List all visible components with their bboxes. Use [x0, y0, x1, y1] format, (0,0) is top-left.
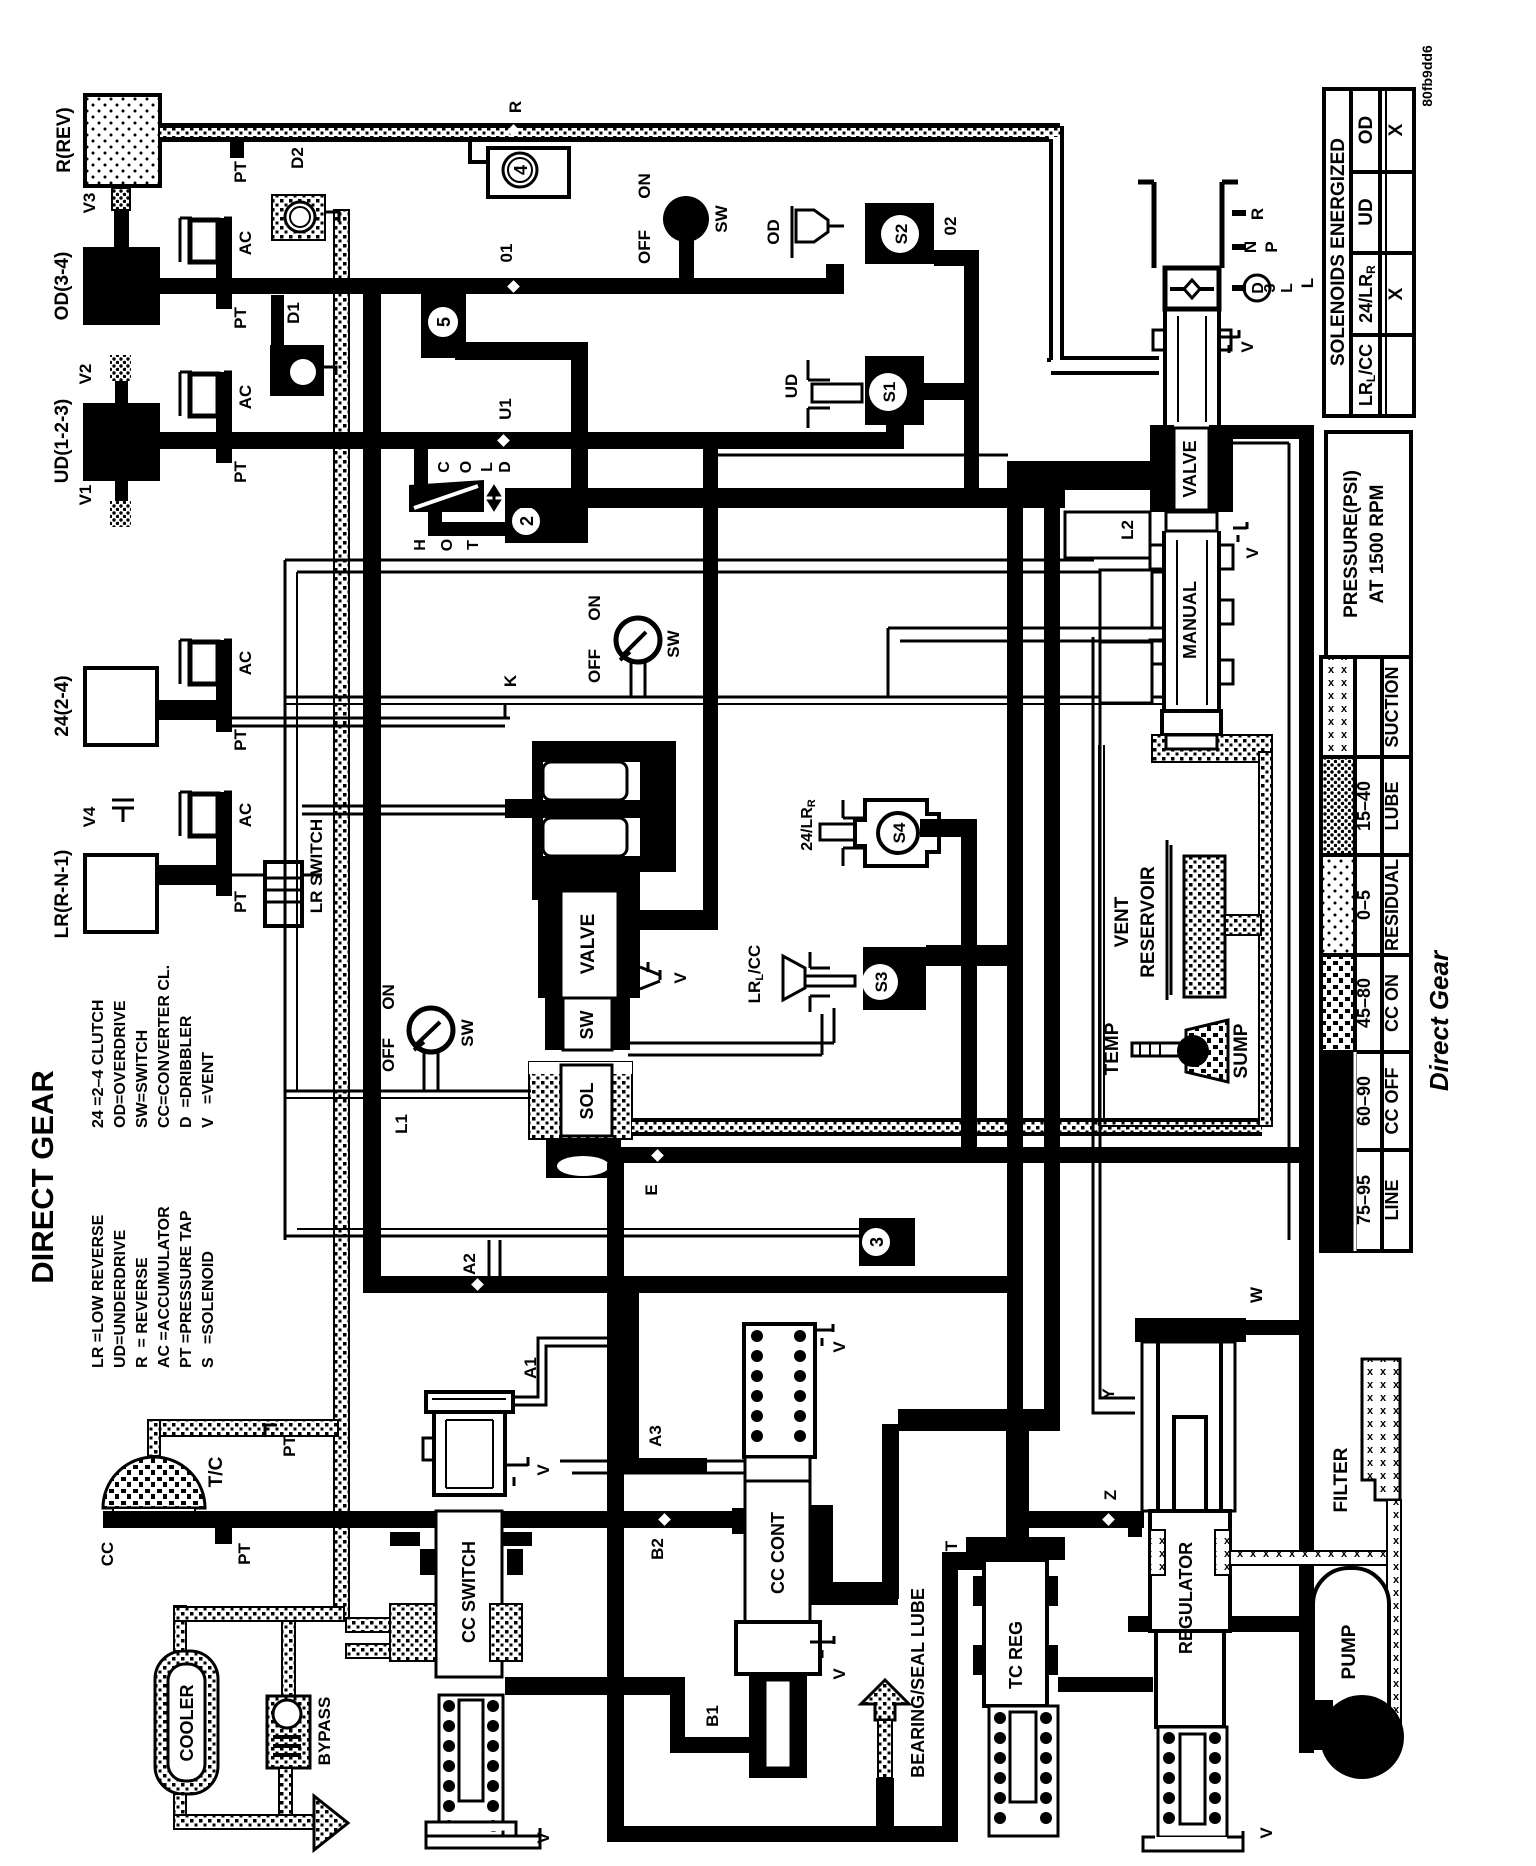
- svg-text:VENT: VENT: [1112, 896, 1133, 947]
- wire K line: [285, 696, 1164, 699]
- accumulator AC on OD line: [180, 218, 255, 309]
- svg-text:OD: OD: [764, 219, 783, 245]
- wire OD drop to S2 plunger: [826, 264, 844, 278]
- svg-text:V: V: [534, 1464, 553, 1476]
- gear position ticks: [1232, 213, 1246, 288]
- svg-text:UD: UD: [1356, 198, 1377, 225]
- svg-text:LINE: LINE: [1382, 1179, 1402, 1220]
- wire TC REG top connector: [898, 1409, 1060, 1431]
- wire UD line: [160, 432, 904, 449]
- wire E line: [621, 1147, 1307, 1163]
- table SOLENOIDS ENERGIZED: [1324, 89, 1414, 416]
- pressure tap PT on R line: [230, 142, 244, 158]
- swatch line: [1321, 1152, 1355, 1249]
- pressure tap PT on 24 line: [216, 716, 232, 732]
- svg-text:PT: PT: [231, 461, 250, 483]
- svg-text:TEMP: TEMP: [1102, 1022, 1123, 1075]
- reservoir enclosure: [1099, 745, 1265, 1126]
- svg-text:PRESSURE(PSI): PRESSURE(PSI): [1341, 470, 1362, 618]
- accumulator AC on 24 line: [180, 640, 255, 716]
- clutch UD(1-2-3) box: [83, 403, 160, 481]
- LR switch symbol: [265, 862, 302, 926]
- svg-text:OFF: OFF: [585, 649, 604, 683]
- svg-text:AC: AC: [236, 651, 255, 676]
- accumulator AC on UD line: [180, 372, 255, 463]
- valve CC SWITCH spring: [439, 1695, 503, 1836]
- svg-text:LRL/CC: LRL/CC: [1356, 344, 1378, 406]
- valve SOL section with solenoid shell: [529, 1062, 632, 1139]
- valve bottom cap: [546, 1139, 621, 1178]
- svg-text:OD: OD: [1356, 116, 1377, 145]
- svg-text:OFF: OFF: [635, 230, 654, 264]
- svg-text:3: 3: [867, 1237, 887, 1247]
- svg-text:02: 02: [941, 217, 960, 236]
- svg-text:K: K: [501, 674, 520, 687]
- wire L1 line: [285, 1090, 531, 1093]
- svg-text:PT: PT: [231, 307, 250, 329]
- svg-text:U1: U1: [496, 398, 515, 420]
- svg-text:SOL: SOL: [577, 1082, 597, 1119]
- svg-text:Z: Z: [1101, 1490, 1120, 1500]
- svg-text:AT 1500 RPM: AT 1500 RPM: [1367, 485, 1388, 604]
- svg-text:CC=CONVERTER CL.: CC=CONVERTER CL.: [156, 965, 173, 1128]
- wire regulator right stub: [1230, 1616, 1300, 1632]
- svg-text:X: X: [1386, 123, 1407, 136]
- svg-text:PT: PT: [235, 1543, 254, 1565]
- wire C turn to CC CONT vertical: [898, 1409, 1060, 1426]
- svg-text:S3: S3: [872, 972, 891, 993]
- wire B1 line: [505, 1677, 685, 1695]
- wire S2 to vertical: [934, 250, 979, 266]
- shifter gate rails: [1138, 182, 1238, 268]
- svg-text:V: V: [1257, 1827, 1276, 1839]
- svg-text:REGULATOR: REGULATOR: [1176, 1542, 1196, 1654]
- vent V3: [112, 188, 130, 210]
- valve VALVE black housing: [1150, 425, 1174, 512]
- svg-text:Y: Y: [1099, 1388, 1118, 1400]
- valve CC SWITCH stipple chamber: [390, 1604, 436, 1661]
- table PRESSURE(PSI) AT 1500 RPM: [1326, 432, 1411, 657]
- svg-text:S1: S1: [880, 382, 899, 403]
- svg-text:BYPASS: BYPASS: [315, 1697, 334, 1766]
- solenoid S3: [863, 947, 926, 1010]
- accumulator AC on LR line: [180, 792, 255, 880]
- svg-text:V4: V4: [80, 806, 99, 827]
- svg-text:MANUAL: MANUAL: [1180, 581, 1200, 659]
- wire 24 thin line: [232, 704, 510, 726]
- svg-text:W: W: [1247, 1286, 1266, 1303]
- svg-text:LR SWITCH: LR SWITCH: [307, 819, 326, 913]
- svg-text:X: X: [1386, 287, 1407, 300]
- svg-text:D: D: [497, 461, 514, 473]
- svg-text:O: O: [439, 539, 456, 551]
- wire left box verticals: [284, 560, 287, 1240]
- svg-text:O: O: [458, 461, 475, 473]
- wire stipple cooler loop: [174, 1606, 186, 1651]
- node A2: [471, 1278, 484, 1291]
- clutch OD(3-4) box: [83, 247, 160, 325]
- svg-text:VALVE: VALVE: [1180, 440, 1200, 497]
- svg-text:LUBE: LUBE: [1382, 782, 1402, 831]
- svg-text:V =VENT: V =VENT: [200, 1052, 217, 1128]
- wire E return vertical: [607, 1163, 624, 1842]
- node B2: [658, 1513, 671, 1526]
- svg-text:RESIDUAL: RESIDUAL: [1382, 859, 1402, 951]
- svg-text:Direct Gear: Direct Gear: [1424, 949, 1454, 1091]
- sump SUMP: [1186, 1020, 1228, 1082]
- clutch 24(2-4) box: [85, 668, 157, 745]
- wire A3 line: [560, 1461, 744, 1473]
- wire CC CONT long vertical: [882, 1424, 899, 1599]
- filter FILTER: [1362, 1359, 1400, 1500]
- svg-text:5: 5: [434, 317, 454, 327]
- svg-text:UD(1-2-3): UD(1-2-3): [52, 399, 73, 483]
- SEC:TABLES: [52, 95, 543, 1621]
- switch SW on L1: [409, 1008, 453, 1052]
- swatch cc off: [1321, 1054, 1355, 1148]
- svg-text:RESERVOIR: RESERVOIR: [1138, 866, 1159, 978]
- switch SW on K line: [616, 618, 660, 662]
- svg-text:SUMP: SUMP: [1231, 1023, 1252, 1078]
- wire vertical A to E line: [961, 966, 977, 1156]
- swatch residual: [1323, 857, 1353, 953]
- legend table pressures: [1321, 657, 1411, 1251]
- solenoid S4: [855, 800, 939, 866]
- vent V1: [115, 481, 128, 501]
- svg-text:LRL/CC: LRL/CC: [745, 945, 766, 1004]
- reservoir top stipple: [1152, 735, 1272, 762]
- svg-text:D2: D2: [288, 147, 307, 169]
- svg-text:L2: L2: [1118, 520, 1137, 540]
- svg-text:75–95: 75–95: [1354, 1175, 1374, 1225]
- svg-text:AC: AC: [236, 803, 255, 828]
- svg-text:PUMP: PUMP: [1339, 1624, 1360, 1679]
- node B1: [706, 1680, 719, 1693]
- svg-text:L: L: [1298, 278, 1317, 288]
- svg-text:ON: ON: [585, 595, 604, 621]
- wire S4 to vertical A: [920, 819, 977, 837]
- suction line to regulator: [1230, 1551, 1390, 1565]
- node E: [651, 1149, 664, 1162]
- cooler COOLER: [155, 1651, 218, 1794]
- svg-text:V: V: [830, 1668, 849, 1680]
- svg-text:S2: S2: [892, 224, 911, 245]
- dribbler D2: [272, 195, 325, 240]
- manual valve body: [1164, 531, 1219, 711]
- dribbler D1: [271, 295, 284, 345]
- reservoir tank: [1167, 840, 1171, 1000]
- svg-text:24(2-4): 24(2-4): [52, 675, 73, 736]
- svg-text:VALVE: VALVE: [578, 914, 599, 975]
- valve REGULATOR mid: [1128, 1511, 1142, 1537]
- svg-text:T: T: [465, 540, 482, 550]
- wire R line (stippled residual): [160, 123, 1060, 128]
- svg-text:2: 2: [517, 516, 537, 526]
- wire OD line: [160, 278, 844, 294]
- wire 24 line stub: [157, 700, 232, 720]
- svg-text:N: N: [1241, 241, 1260, 253]
- wire CC CONT branch right: [817, 1582, 898, 1605]
- wire Z line: [1023, 1511, 1144, 1528]
- switch SW on OD line: [663, 196, 709, 242]
- valve TC REG spring: [989, 1706, 1058, 1836]
- wire TC REG to regulator: [1058, 1677, 1153, 1692]
- manual valve bottom cap: [1162, 711, 1221, 735]
- svg-text:R: R: [506, 101, 525, 113]
- svg-text:CC: CC: [98, 1542, 117, 1567]
- wire LR switch to line: [232, 874, 265, 877]
- svg-text:CC SWITCH: CC SWITCH: [459, 1541, 479, 1643]
- junction 5: [421, 294, 466, 358]
- svg-text:V: V: [1243, 547, 1262, 559]
- solenoid S1: [865, 356, 924, 425]
- valve TC REG: [966, 1537, 1065, 1560]
- vent V on valve: [640, 962, 660, 989]
- wire LR line stub: [157, 865, 232, 885]
- svg-text:L1: L1: [392, 1114, 411, 1134]
- svg-text:V: V: [1238, 341, 1257, 353]
- valve SW section: [545, 998, 563, 1050]
- valve CC SWITCH upper barrel: [434, 1412, 505, 1495]
- wire S1 to vertical: [924, 383, 964, 400]
- wire thin pair A2 junction: [489, 1240, 500, 1282]
- svg-text:PT: PT: [280, 1435, 299, 1457]
- manual valve neck: [1165, 309, 1219, 426]
- svg-text:0–5: 0–5: [1354, 890, 1374, 920]
- svg-text:LR =LOW REVERSE: LR =LOW REVERSE: [90, 1214, 107, 1368]
- svg-text:S =SOLENOID: S =SOLENOID: [200, 1251, 217, 1368]
- svg-text:SOLENOIDS ENERGIZED: SOLENOIDS ENERGIZED: [1328, 138, 1349, 366]
- svg-text:L: L: [479, 462, 496, 472]
- wire LR switch stippled vertical line: [334, 210, 349, 1621]
- valve CC SWITCH bottom cap: [426, 1822, 540, 1848]
- solenoid S2: [865, 203, 934, 264]
- svg-text:4: 4: [511, 165, 531, 175]
- svg-text:ON: ON: [635, 173, 654, 199]
- svg-text:A1: A1: [521, 1357, 540, 1379]
- node 01: [507, 280, 520, 293]
- svg-text:3: 3: [1262, 283, 1279, 292]
- SEC:TOPLINES: [285, 476, 1307, 1599]
- svg-text:TC REG: TC REG: [1006, 1621, 1026, 1689]
- svg-text:60–90: 60–90: [1354, 1076, 1374, 1126]
- svg-text:AC: AC: [236, 385, 255, 410]
- valve CC SWITCH ports at CC line: [390, 1511, 436, 1528]
- svg-text:LR(R-N-1): LR(R-N-1): [52, 850, 73, 939]
- wire A1 line: [513, 1338, 612, 1405]
- SEC:CENTER: [1065, 182, 1314, 1753]
- bypass valve BYPASS: [267, 1696, 310, 1768]
- svg-text:V2: V2: [76, 364, 95, 385]
- regulator top cap: [1135, 1318, 1246, 1342]
- torque converter T/C dome: [103, 1457, 205, 1508]
- wire vertical B: [1007, 476, 1023, 1522]
- port box upper left of manual valve: [1065, 512, 1150, 558]
- wire from 5 to U1 vertical: [455, 342, 588, 360]
- svg-text:A3: A3: [646, 1425, 665, 1447]
- svg-text:V: V: [830, 1341, 849, 1353]
- wire CC line: [103, 1511, 744, 1528]
- svg-text:T/C: T/C: [206, 1456, 227, 1487]
- port box mid left of manual valve: [1100, 570, 1152, 628]
- clutch LR(R-N-1) box: [85, 855, 157, 932]
- svg-text:V: V: [671, 972, 690, 984]
- junction 3: [859, 1218, 915, 1266]
- wire thin pair from U1 vertical to manual ports: [718, 454, 1008, 457]
- bearing/seal lube arrow: [861, 1680, 909, 1720]
- wire valve SW to LRL/CC funnel: [628, 1008, 834, 1055]
- shift lever box: [1165, 268, 1219, 309]
- node Z: [1102, 1513, 1115, 1526]
- wire long vertical from OD line down to bottom: [363, 287, 381, 1293]
- swatch suction: [1323, 659, 1353, 755]
- svg-text:V: V: [534, 1832, 553, 1844]
- pump PUMP: [1313, 1568, 1389, 1755]
- svg-text:PT =PRESSURE TAP: PT =PRESSURE TAP: [178, 1210, 195, 1368]
- valve CC SWITCH top cap: [426, 1392, 513, 1412]
- valve REGULATOR upper: [1142, 1342, 1235, 1511]
- svg-text:45–80: 45–80: [1354, 978, 1374, 1028]
- bimetal arrow: [489, 487, 499, 509]
- wire lines to manual valve L2 ports: [285, 559, 1094, 562]
- SEC:BOTTOM: [25, 965, 217, 1368]
- svg-text:PT: PT: [231, 891, 250, 913]
- svg-text:DIRECT GEAR: DIRECT GEAR: [25, 1070, 60, 1284]
- svg-text:P: P: [1262, 241, 1281, 252]
- svg-text:80fb9dd6: 80fb9dd6: [1419, 45, 1435, 107]
- wire UD step up to S1: [886, 400, 904, 432]
- wire U1 vertical down to switch valve: [703, 508, 718, 928]
- svg-text:H: H: [412, 539, 429, 551]
- svg-text:CC CONT: CC CONT: [768, 1512, 788, 1594]
- svg-text:L: L: [1279, 283, 1296, 293]
- valve CC CONT body: [745, 1457, 810, 1481]
- svg-text:C: C: [436, 461, 453, 473]
- wire LR thin line to spool: [302, 806, 543, 814]
- svg-text:OD=OVERDRIVE: OD=OVERDRIVE: [112, 1000, 129, 1128]
- wire stipple from T/C top to LR vertical: [148, 1420, 338, 1436]
- svg-text:SUCTION: SUCTION: [1382, 667, 1402, 748]
- svg-text:R = REVERSE: R = REVERSE: [134, 1257, 151, 1368]
- swatch lube: [1323, 759, 1353, 853]
- svg-text:S4: S4: [890, 822, 909, 843]
- svg-text:CC ON: CC ON: [1382, 974, 1402, 1032]
- manual valve connector: [1166, 512, 1217, 531]
- svg-text:ON: ON: [379, 984, 398, 1010]
- svg-text:COOLER: COOLER: [177, 1684, 197, 1761]
- wire thick band to VALVE: [1007, 461, 1152, 476]
- pressure tap PT on LR line: [216, 880, 232, 896]
- svg-text:R: R: [1248, 208, 1267, 220]
- node R: [507, 124, 520, 137]
- wire lube stipple line: [632, 1118, 1262, 1122]
- clutch R(REV) box: [85, 95, 160, 186]
- svg-text:UD: UD: [782, 374, 801, 399]
- pressure tap PT on CC: [215, 1528, 232, 1544]
- wire bypass down + arrow right: [279, 1768, 292, 1823]
- svg-text:SW: SW: [664, 629, 683, 657]
- svg-text:PT: PT: [231, 161, 250, 183]
- svg-text:R(REV): R(REV): [54, 107, 75, 172]
- wire bottom return line: [607, 1826, 958, 1842]
- swatch cc on: [1323, 957, 1353, 1050]
- svg-text:OD(3-4): OD(3-4): [52, 252, 73, 321]
- SEC:RIGHTCOL: [98, 1163, 1404, 1851]
- svg-text:CC OFF: CC OFF: [1382, 1068, 1402, 1135]
- wire T vertical: [942, 1552, 958, 1842]
- valve CC CONT piston: [736, 1622, 820, 1674]
- wire thick W vertical: [1233, 425, 1314, 439]
- wire U1 line: [505, 488, 1065, 508]
- wire solenoid vertical: [964, 250, 979, 500]
- pressure tap PT upper: [265, 1425, 277, 1436]
- orifice 4 assembly: [470, 140, 488, 162]
- port box lower left of manual valve: [1100, 642, 1152, 703]
- svg-text:SW: SW: [712, 204, 731, 232]
- svg-text:FILTER: FILTER: [1331, 1447, 1352, 1512]
- svg-text:V1: V1: [76, 485, 95, 506]
- svg-text:24 =2–4 CLUTCH: 24 =2–4 CLUTCH: [90, 1000, 107, 1129]
- node U1: [497, 434, 510, 447]
- label CC SWITCH: [436, 1511, 502, 1677]
- svg-text:01: 01: [497, 244, 516, 263]
- valve solenoid switch valve (top spools): [532, 741, 676, 900]
- svg-text:B2: B2: [648, 1538, 667, 1560]
- svg-text:AC: AC: [236, 231, 255, 256]
- valve VALVE section: [538, 891, 561, 998]
- wire A2 to A3 thick drop: [622, 1293, 639, 1474]
- svg-text:BEARING/SEAL LUBE: BEARING/SEAL LUBE: [908, 1588, 928, 1778]
- wire thin right vertical: [1233, 443, 1289, 1240]
- junction 2: [505, 493, 588, 543]
- svg-text:AC =ACCUMULATOR: AC =ACCUMULATOR: [156, 1206, 173, 1368]
- wire line to junction 3: [285, 1235, 859, 1238]
- wire vertical C: [1044, 476, 1060, 1421]
- svg-text:UD=UNDERDRIVE: UD=UNDERDRIVE: [112, 1229, 129, 1368]
- svg-text:SW=SWITCH: SW=SWITCH: [134, 1030, 151, 1128]
- svg-text:B1: B1: [703, 1705, 722, 1727]
- valve CC CONT spring box: [744, 1324, 815, 1457]
- svg-text:SW: SW: [458, 1018, 477, 1046]
- valve REGULATOR lower + spring: [1156, 1631, 1224, 1727]
- wire R line to manual valve: [1062, 126, 1159, 358]
- svg-text:OFF: OFF: [379, 1038, 398, 1072]
- wire A2 line: [363, 1276, 1010, 1293]
- svg-text:PT: PT: [231, 729, 250, 751]
- svg-text:T: T: [942, 1540, 961, 1551]
- svg-text:15–40: 15–40: [1354, 781, 1374, 831]
- svg-text:D =DRIBBLER: D =DRIBBLER: [178, 1015, 195, 1128]
- svg-text:V3: V3: [80, 193, 99, 214]
- svg-text:SW: SW: [577, 1010, 597, 1039]
- wire thin pair to A3 drop: [611, 1238, 619, 1297]
- wire U1 connector down from UD: [703, 432, 718, 508]
- svg-text:E: E: [642, 1184, 661, 1195]
- svg-text:A2: A2: [460, 1253, 479, 1275]
- svg-text:D1: D1: [284, 302, 303, 324]
- wire S3 line to vertical B: [926, 945, 1023, 966]
- wire Y line: [1093, 628, 1135, 1413]
